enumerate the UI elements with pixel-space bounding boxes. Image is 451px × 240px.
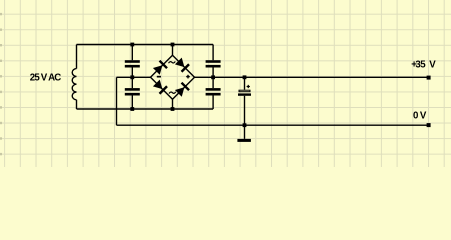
junction lower rail / bridge stub <box>171 107 175 111</box>
label ~ top <box>169 61 176 63</box>
transformer secondary L1 25 V AC <box>72 45 76 110</box>
junction top rail / left caps <box>130 43 134 47</box>
svg-text:0V: 0V <box>413 111 427 122</box>
capacitor C1 upper-left <box>125 45 140 78</box>
junction +35V rail / C5 <box>243 75 247 79</box>
wire bridge top stub <box>172 45 174 56</box>
wire 0V rail <box>117 124 429 126</box>
diode D2 (left to bottom) <box>153 79 168 94</box>
wire lower AC rail <box>77 108 214 110</box>
label ~ bottom <box>169 92 176 94</box>
junction top rail / bridge stub <box>171 43 175 47</box>
wire left drop to 0V <box>116 77 118 125</box>
capacitor C5 electrolytic <box>238 77 251 139</box>
capacitor C4 lower-right <box>206 77 221 109</box>
wire minus row <box>117 76 151 78</box>
capacitor C2 lower-left <box>125 77 140 109</box>
svg-text:25VAC: 25VAC <box>30 73 61 84</box>
wire bridge bottom stub <box>172 99 174 109</box>
label minus <box>157 76 161 78</box>
diode D4 (bottom to right) <box>175 82 190 97</box>
junction +35V rail / right caps <box>211 75 215 79</box>
ground symbol <box>237 139 251 142</box>
junction lower rail / left caps <box>130 107 134 111</box>
label + of C5 <box>247 85 250 88</box>
terminal +35 V <box>427 76 431 80</box>
diode D1 (left to top) <box>153 60 168 75</box>
wire top AC rail <box>77 44 214 46</box>
junction 0V rail / C5 ground <box>243 123 247 127</box>
diode D3 (top to right) <box>175 57 190 72</box>
label plus <box>186 75 190 79</box>
svg-text:+35V: +35V <box>411 60 436 71</box>
bridge rectifier frame <box>151 55 195 99</box>
wire +35V rail <box>195 76 429 78</box>
junction minus row / left caps <box>130 75 134 79</box>
capacitor C3 upper-right <box>206 45 221 78</box>
terminal 0 V <box>427 123 431 127</box>
